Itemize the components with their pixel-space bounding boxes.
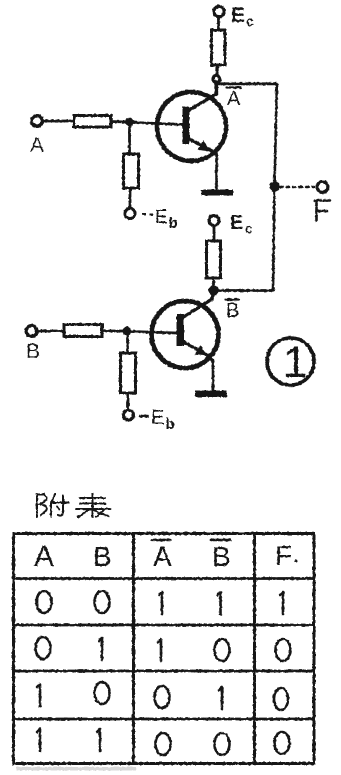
wire junction to Q2 base [131,332,177,334]
table header F [275,540,298,571]
table digits row 3: 1 0 0 1 0 [37,682,288,710]
node B-bar (collector node, gate 2) [209,286,218,295]
transistor Q1 circle [157,92,226,161]
svg-text:A: A [30,134,44,157]
table column divider 2 [253,534,256,764]
terminal F [317,182,328,193]
table row line 2 [14,624,315,627]
resistor Rb1 (bias resistor, gate 1) [124,154,139,188]
table header A [34,540,54,573]
svg-text:B: B [226,300,239,322]
svg-text:1: 1 [283,338,307,387]
transistor Q1 collector stroke [189,82,217,110]
wire Rb2 to -Eb terminal [127,393,130,410]
label -Eb (gate 1) [142,207,178,232]
svg-text:B: B [93,541,112,572]
dotted wire to terminal F [280,186,314,188]
truth table frame [14,534,315,764]
svg-text:A: A [34,540,54,573]
scan shadow under table [16,767,136,771]
transistor Q2 base bar [177,314,185,346]
wire RB to junction [102,330,124,333]
svg-text:b: b [166,416,175,433]
resistor RB (base resistor, input B) [64,325,102,337]
表 strokes [80,497,105,499]
wire Q2 emitter to ground [212,360,215,390]
wire B to RB [37,330,64,333]
svg-text:A: A [153,541,172,572]
table header B [93,541,112,572]
caption 附表 (attached table) [37,494,110,518]
figure number circled 1 [267,338,314,385]
svg-text:E: E [151,407,164,429]
label B (input) [26,340,40,363]
terminal B (input) [26,326,37,337]
wire Rb1 to -Eb terminal [129,188,132,209]
table column divider 1 [132,534,135,764]
ground (gate 2) [195,391,227,398]
node A-bar (collector node, gate 1) [213,75,220,82]
transistor Q2 circle [152,301,219,368]
wire R1 to node A-bar [216,65,219,75]
wire Q1 emitter to ground [215,153,218,189]
label F [315,201,330,223]
resistor R3 (collector load, gate 2) [207,241,221,278]
table header A-bar [153,541,172,572]
wire node B-bar to right bus [217,289,273,292]
table digits row 4: 1 1 0 0 0 [37,729,290,755]
resistor R1 (collector load, gate 1) [212,30,226,65]
label A-bar [227,88,241,110]
label -Eb (gate 2) [139,407,175,433]
wire right bus (collector tie) [273,84,277,291]
transistor Q1 base bar [183,107,190,145]
resistor RA (base resistor, input A) [74,116,111,128]
svg-text:E: E [231,4,245,27]
table header separator [14,577,315,580]
label Ec (gate 1 supply) [231,4,254,29]
terminal Ec (top supply, gate 1) [214,6,224,16]
svg-text:B: B [212,541,231,572]
table header B-bar [212,541,231,572]
label A (input) [30,134,44,157]
附 person stroke [51,494,55,517]
wire node to right bus [219,82,277,85]
svg-text:A: A [227,88,241,110]
wire RA to junction [111,120,127,123]
transistor Q2 emitter stroke [182,341,213,362]
wire Ec to R1 [217,17,220,30]
svg-text:B: B [26,340,40,363]
junction node (base A) [126,118,134,126]
wire junction to Q1 base [133,123,183,125]
svg-text:c: c [245,221,252,236]
junction node F tap [270,182,279,191]
label Ec (gate 2 supply) [230,212,252,236]
svg-text:E: E [230,212,243,234]
附 cun horizontal [53,502,69,504]
wire Ec2 to R3 [213,226,216,242]
ground (gate 1) [201,190,233,196]
transistor Q2 collector stroke [182,293,214,318]
svg-text:c: c [246,13,254,29]
transistor Q2 emitter arrow [195,345,209,356]
wire junction down to Rb1 [128,125,131,154]
wire A to RA [43,120,74,123]
resistor Rb2 (bias resistor, gate 2) [121,353,136,393]
wire junction down to Rb2 [126,334,129,353]
junction node (base B) [123,327,131,335]
terminal -Eb (gate 2 bias) [124,410,134,420]
附 cun vertical hook [58,495,63,516]
transistor Q1 emitter stroke [189,139,217,155]
table row line 4 [14,718,315,721]
wire R3 to node B-bar [212,278,215,287]
terminal Ec (supply, gate 2) [209,216,219,226]
svg-text:b: b [169,215,178,232]
svg-text:F: F [275,540,292,571]
terminal A (input) [32,116,43,127]
transistor Q1 emitter arrow [198,140,212,151]
附 left ear [36,495,38,518]
table row line 3 [14,670,315,673]
table digits row 2: 0 1 1 0 0 [36,637,291,661]
terminal -Eb (gate 1 bias) [125,209,135,219]
table digits row 1: 0 0 1 1 1 [37,591,284,614]
label B-bar [226,300,239,322]
svg-text:E: E [155,207,168,228]
